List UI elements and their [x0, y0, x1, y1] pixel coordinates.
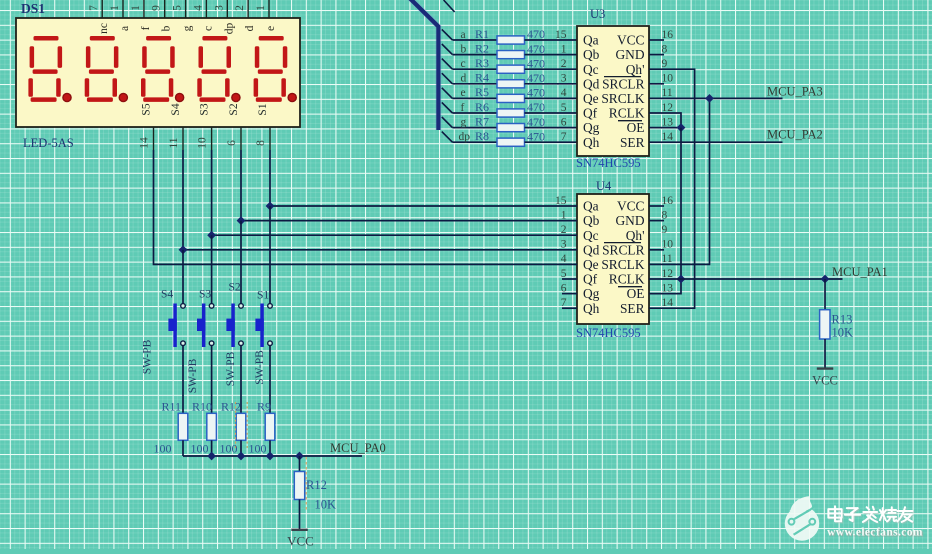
svg-text:R5: R5 — [475, 85, 489, 99]
DS1 bottom pin 10 (S3) — [197, 103, 212, 150]
svg-text:SRCLR: SRCLR — [602, 242, 644, 257]
svg-text:R12: R12 — [306, 478, 327, 492]
DS1 top pin 1 (e) — [255, 0, 277, 31]
svg-text:14: 14 — [139, 137, 151, 149]
svg-text:2: 2 — [561, 58, 567, 70]
svg-text:DS1: DS1 — [21, 1, 45, 16]
resistor R2 — [497, 51, 525, 59]
svg-text:4: 4 — [192, 5, 204, 11]
resistor R12 — [236, 413, 246, 440]
svg-text:11: 11 — [662, 87, 673, 99]
svg-text:7: 7 — [561, 297, 567, 309]
bus halo — [410, 0, 439, 130]
svg-text:LED-5AS: LED-5AS — [23, 136, 74, 150]
junction on rail — [295, 452, 304, 461]
wire R9 to rail — [269, 440, 271, 456]
wire column x=183.0 down to switch — [182, 250, 184, 304]
wire DS1 column x=241.0 to U4 row 2 — [241, 150, 577, 221]
svg-text:nc: nc — [98, 23, 110, 34]
svg-text:Qc: Qc — [583, 228, 599, 243]
bus entry dp — [442, 132, 453, 143]
DS1 digit 4 decimal point — [232, 93, 240, 101]
bus entry a — [442, 29, 453, 40]
VCC symbol (R12) — [291, 529, 308, 531]
svg-text:100: 100 — [249, 442, 267, 456]
svg-text:8: 8 — [662, 209, 668, 221]
svg-text:a: a — [119, 26, 131, 31]
wire column x=211.6 down to switch — [211, 235, 213, 303]
junction at U3 pin13 — [677, 123, 686, 132]
DS1 top pin 1 (f) — [130, 0, 152, 30]
svg-text:1: 1 — [109, 5, 121, 11]
svg-text:10: 10 — [662, 73, 674, 85]
watermark text 电子发烧友 — [829, 507, 913, 523]
resistor R1 — [497, 36, 525, 44]
svg-text:Qe: Qe — [583, 91, 599, 106]
wire R12 to rail — [240, 440, 242, 456]
svg-text:470: 470 — [527, 42, 545, 56]
wire R6 to U3 — [525, 112, 578, 114]
svg-text:www.elecfans.com: www.elecfans.com — [827, 527, 923, 539]
logo notch — [806, 504, 815, 512]
selection mark line — [305, 457, 307, 510]
svg-text:R3: R3 — [475, 56, 489, 70]
svg-text:8: 8 — [662, 43, 668, 55]
svg-text:R7: R7 — [475, 114, 489, 128]
junction — [179, 245, 188, 254]
U3 pin stub — [649, 83, 664, 85]
wire R4 to U3 — [525, 83, 578, 85]
svg-text:Qd: Qd — [583, 76, 600, 91]
wire U3 SER (pin14) to MCU_PA2 — [649, 141, 783, 143]
svg-text:6: 6 — [561, 282, 567, 294]
svg-text:SRCLK: SRCLK — [601, 257, 644, 272]
wire R2 to U3 — [525, 54, 578, 56]
junction — [207, 231, 216, 240]
svg-text:Qa: Qa — [583, 199, 599, 214]
svg-text:b: b — [461, 43, 467, 55]
DS1 digit 4 segments — [197, 36, 231, 102]
DS1 bottom pin 6 (S2) — [226, 103, 241, 150]
svg-text:3: 3 — [561, 239, 567, 251]
resistor R10 — [207, 413, 217, 440]
svg-text:11: 11 — [168, 137, 180, 148]
svg-text:13: 13 — [662, 116, 674, 128]
wire c to resistor R3 — [452, 68, 497, 70]
DS1 digit 3 decimal point — [176, 93, 184, 101]
DS1 digit 1 decimal point — [63, 93, 71, 101]
bus entry c — [442, 59, 453, 70]
svg-text:f: f — [140, 26, 152, 30]
U3 pin stub — [649, 54, 664, 56]
svg-text:Qc: Qc — [583, 62, 599, 77]
wire R12 to VCC — [299, 500, 301, 530]
bus entry b — [442, 44, 453, 55]
U4 left pin stub — [562, 307, 577, 309]
VCC symbol (R13) — [817, 367, 834, 369]
svg-text:7: 7 — [561, 131, 567, 143]
svg-text:e: e — [461, 87, 466, 99]
svg-text:14: 14 — [662, 131, 674, 143]
U3 OE overline — [618, 120, 642, 122]
svg-text:11: 11 — [662, 253, 673, 265]
DS1 top pin 3 (dp) — [213, 0, 235, 34]
svg-text:S4: S4 — [170, 103, 182, 115]
svg-text:470: 470 — [527, 100, 545, 114]
svg-text:S4: S4 — [161, 289, 173, 301]
bus (segment lines to R1-R8) — [410, 0, 439, 130]
svg-text:Qg: Qg — [583, 286, 600, 301]
resistor R13 — [820, 310, 830, 339]
svg-text:MCU_PA1: MCU_PA1 — [832, 265, 888, 279]
svg-text:10: 10 — [197, 137, 209, 149]
svg-text:VCC: VCC — [287, 534, 314, 549]
watermark logo circle — [785, 496, 819, 540]
resistor R11 — [178, 413, 188, 440]
wire column x=270.0 down to switch — [269, 206, 271, 304]
bus entry g — [442, 117, 453, 128]
svg-text:4: 4 — [561, 87, 567, 99]
svg-text:MCU_PA3: MCU_PA3 — [767, 85, 823, 99]
svg-text:Qf: Qf — [583, 106, 598, 121]
svg-text:13: 13 — [662, 282, 674, 294]
wire column x=241.0 down to switch — [240, 221, 242, 304]
7-segment display DS1 body — [16, 18, 300, 127]
wire R11 to rail — [182, 440, 184, 456]
U4 pin stub — [649, 205, 664, 207]
resistor R5 — [497, 94, 525, 102]
U4 pin stub — [649, 249, 664, 251]
wire down to U4 RCLK/OE — [649, 128, 681, 294]
DS1 top pin 1 (a) — [109, 0, 131, 31]
DS1 digit 3 segments — [141, 36, 175, 102]
svg-text:2: 2 — [234, 5, 246, 11]
DS1 digit 2 decimal point — [119, 93, 127, 101]
svg-text:S3: S3 — [199, 289, 211, 301]
svg-text:15: 15 — [555, 29, 567, 41]
svg-text:OE: OE — [627, 120, 645, 135]
svg-text:3: 3 — [561, 73, 567, 85]
DS1 top pin 4 (c) — [192, 0, 214, 31]
svg-text:16: 16 — [662, 195, 674, 207]
svg-text:GND: GND — [615, 213, 644, 228]
U4 OE overline — [618, 286, 642, 288]
svg-text:100: 100 — [154, 442, 172, 456]
wire S3 to resistor — [211, 346, 213, 414]
wire U3 SRCLK (pin11) to MCU_PA3 — [649, 97, 783, 99]
svg-text:2: 2 — [561, 224, 567, 236]
wire S2 to resistor — [240, 346, 242, 414]
bus entry e — [442, 88, 453, 99]
svg-text:Qa: Qa — [583, 33, 599, 48]
resistor R8 — [497, 138, 525, 146]
DS1 bottom pin 8 (S1) — [255, 103, 270, 150]
svg-text:R9: R9 — [257, 400, 271, 414]
wire R3 to U3 — [525, 68, 578, 70]
svg-text:MCU_PA2: MCU_PA2 — [767, 128, 823, 142]
junction — [266, 202, 275, 211]
svg-text:SER: SER — [620, 135, 645, 150]
svg-text:R12: R12 — [221, 400, 241, 414]
svg-text:S5: S5 — [141, 103, 153, 115]
wire S1 to resistor — [269, 346, 271, 414]
svg-text:3: 3 — [213, 5, 225, 11]
IC U3 body — [577, 26, 649, 156]
svg-text:8: 8 — [255, 140, 267, 146]
svg-text:9: 9 — [662, 58, 668, 70]
wire DS1 column x=183.0 to U4 row 4 — [183, 150, 577, 250]
svg-text:10K: 10K — [832, 326, 854, 340]
svg-text:U3: U3 — [590, 7, 605, 21]
svg-text:VCC: VCC — [617, 199, 645, 214]
wire bottom rail MCU_PA0 — [183, 455, 362, 457]
svg-text:16: 16 — [662, 29, 674, 41]
wire dp to resistor R8 — [452, 141, 497, 143]
svg-text:d: d — [244, 25, 256, 31]
svg-text:GND: GND — [615, 47, 644, 62]
svg-text:S1: S1 — [257, 290, 269, 302]
svg-text:Qe: Qe — [583, 257, 599, 272]
DS1 digit 5 decimal point — [288, 93, 296, 101]
wire U4 pin12 stub — [649, 278, 681, 280]
DS1 digit 2 segments — [85, 36, 119, 102]
junction on rail — [207, 452, 216, 461]
svg-text:5: 5 — [561, 102, 567, 114]
svg-text:c: c — [202, 26, 214, 31]
wire R8 to U3 — [525, 141, 578, 143]
svg-text:dp: dp — [459, 131, 471, 143]
svg-text:MCU_PA0: MCU_PA0 — [330, 441, 386, 455]
DS1 bottom pin 11 (S4) — [168, 103, 183, 150]
U4 left pin stub — [562, 278, 577, 280]
svg-text:Qh: Qh — [583, 135, 600, 150]
svg-text:6: 6 — [561, 116, 567, 128]
resistor R3 — [497, 65, 525, 73]
svg-text:d: d — [461, 73, 467, 85]
svg-text:dp: dp — [223, 23, 235, 35]
svg-text:5: 5 — [561, 268, 567, 280]
svg-text:Qh': Qh' — [626, 228, 645, 243]
svg-text:100: 100 — [220, 442, 238, 456]
svg-text:e: e — [265, 26, 277, 31]
svg-text:R8: R8 — [475, 129, 489, 143]
svg-text:Qf: Qf — [583, 272, 598, 287]
svg-text:Qh: Qh — [583, 301, 600, 316]
svg-text:R1: R1 — [475, 27, 489, 41]
switch S4 (SW-PB) — [168, 304, 185, 348]
svg-text:15: 15 — [555, 195, 567, 207]
svg-text:S2: S2 — [228, 103, 240, 115]
wire DS1 column x=270.0 to U4 row 1 — [270, 150, 577, 206]
svg-text:SW-PB: SW-PB — [142, 339, 154, 374]
junction at U4 pin12 — [677, 275, 686, 284]
svg-text:SER: SER — [620, 301, 645, 316]
svg-text:R11: R11 — [162, 400, 182, 414]
svg-text:RCLK: RCLK — [609, 106, 645, 121]
bus entry stub top — [444, 0, 455, 12]
svg-text:SW-PB: SW-PB — [254, 350, 266, 385]
svg-text:SRCLK: SRCLK — [601, 91, 644, 106]
bus entry f — [442, 102, 453, 113]
wire U3 RCLK (pin12) to OE (pin13) — [649, 113, 681, 128]
svg-text:9: 9 — [662, 224, 668, 236]
svg-text:R2: R2 — [475, 41, 489, 55]
svg-text:100: 100 — [191, 442, 209, 456]
selection marks on R12 — [236, 402, 248, 448]
svg-text:VCC: VCC — [812, 374, 838, 388]
DS1 digit 5 segments — [254, 36, 288, 102]
wire S4 to resistor — [182, 346, 184, 414]
DS1 bottom pin 14 (S5) — [139, 103, 154, 150]
svg-text:S3: S3 — [199, 103, 211, 115]
svg-text:10: 10 — [662, 239, 674, 251]
junction at R13 top — [821, 275, 830, 284]
svg-text:f: f — [461, 102, 465, 114]
svg-text:5: 5 — [172, 5, 184, 11]
svg-text:SW-PB: SW-PB — [187, 358, 199, 393]
junction at U3 pin11 column — [705, 94, 714, 103]
DS1 digit 1 segments — [28, 36, 62, 102]
junction on rail — [266, 452, 275, 461]
svg-text:470: 470 — [527, 129, 545, 143]
DS1 top pin 7 (nc) — [88, 0, 110, 34]
svg-text:OE: OE — [627, 286, 645, 301]
resistor R12 (10K) — [294, 472, 304, 500]
svg-text:10K: 10K — [315, 498, 337, 512]
svg-text:VCC: VCC — [617, 33, 645, 48]
svg-text:1: 1 — [130, 5, 142, 11]
svg-text:g: g — [182, 25, 194, 31]
svg-text:470: 470 — [527, 115, 545, 129]
svg-text:g: g — [461, 116, 467, 128]
svg-text:c: c — [461, 58, 466, 70]
svg-text:12: 12 — [662, 268, 674, 280]
resistor R9 — [265, 413, 275, 440]
svg-text:U4: U4 — [596, 179, 612, 193]
wire R1 to U3 — [525, 39, 578, 41]
switch S2 (SW-PB) — [226, 304, 243, 348]
svg-text:SRCLR: SRCLR — [602, 76, 644, 91]
svg-text:b: b — [161, 25, 173, 31]
bus entry d — [442, 73, 453, 84]
U4 left pin stub — [562, 293, 577, 295]
svg-text:4: 4 — [561, 253, 567, 265]
wire U4 RCLK to MCU_PA1 — [681, 278, 843, 280]
wire R13 to VCC — [824, 339, 826, 369]
svg-text:R4: R4 — [475, 71, 489, 85]
wire rail to R12 (10K) — [299, 456, 301, 472]
wire U3 Qh' (pin9) to U4 SER (pin14) — [649, 69, 695, 308]
wire a to resistor R1 — [452, 39, 497, 41]
junction — [237, 216, 246, 225]
svg-text:R10: R10 — [192, 400, 212, 414]
wire d to resistor R4 — [452, 83, 497, 85]
resistor R4 — [497, 80, 525, 88]
svg-text:1: 1 — [561, 43, 567, 55]
U3 SRCLR overline — [604, 76, 641, 78]
svg-text:S1: S1 — [257, 103, 269, 115]
svg-text:470: 470 — [527, 27, 545, 41]
switch S1 (SW-PB) — [255, 304, 272, 348]
svg-text:470: 470 — [527, 56, 545, 70]
svg-text:1: 1 — [561, 209, 567, 221]
svg-text:1: 1 — [255, 5, 267, 11]
wire b to resistor R2 — [452, 54, 497, 56]
svg-text:S2: S2 — [229, 282, 241, 294]
svg-text:R13: R13 — [832, 313, 853, 327]
svg-text:Qd: Qd — [583, 242, 600, 257]
DS1 top pin 9 (b) — [151, 0, 173, 31]
wire R5 to U3 — [525, 97, 578, 99]
svg-text:6: 6 — [226, 140, 238, 146]
svg-text:Qb: Qb — [583, 47, 600, 62]
junction on rail — [237, 452, 246, 461]
svg-text:470: 470 — [527, 71, 545, 85]
svg-text:Qh': Qh' — [626, 62, 645, 77]
wire MCU_PA1 to R13 — [824, 279, 826, 310]
U4 SRCLR overline — [604, 242, 641, 244]
svg-text:SN74HC595: SN74HC595 — [576, 326, 641, 340]
wire S5 column to U4 pin4 — [154, 150, 578, 264]
IC U4 body — [577, 194, 649, 324]
resistor R6 — [497, 109, 525, 117]
wire SRCLK down to U4 pin11 — [649, 98, 710, 264]
U3 pin stub — [649, 39, 664, 41]
DS1 top pin 2 (d) — [234, 0, 256, 31]
svg-text:9: 9 — [151, 5, 163, 11]
wire R7 to U3 — [525, 127, 578, 129]
svg-text:a: a — [461, 29, 466, 41]
svg-text:Qg: Qg — [583, 120, 600, 135]
svg-text:7: 7 — [88, 5, 100, 11]
wire DS1 column x=211.6 to U4 row 3 — [212, 150, 577, 235]
svg-text:R6: R6 — [475, 100, 489, 114]
svg-text:SN74HC595: SN74HC595 — [576, 156, 641, 170]
switch S3 (SW-PB) — [197, 304, 214, 348]
svg-text:RCLK: RCLK — [609, 272, 645, 287]
svg-text:SW-PB: SW-PB — [225, 351, 237, 386]
svg-text:470: 470 — [527, 86, 545, 100]
wire R10 to rail — [211, 440, 213, 456]
wire g to resistor R7 — [452, 127, 497, 129]
DS1 top pin 5 (g) — [172, 0, 194, 31]
resistor R7 — [497, 124, 525, 132]
wire f to resistor R6 — [452, 112, 497, 114]
U4 pin stub — [649, 220, 664, 222]
svg-text:12: 12 — [662, 102, 674, 114]
svg-text:Qb: Qb — [583, 213, 600, 228]
svg-text:14: 14 — [662, 297, 674, 309]
wire e to resistor R5 — [452, 97, 497, 99]
